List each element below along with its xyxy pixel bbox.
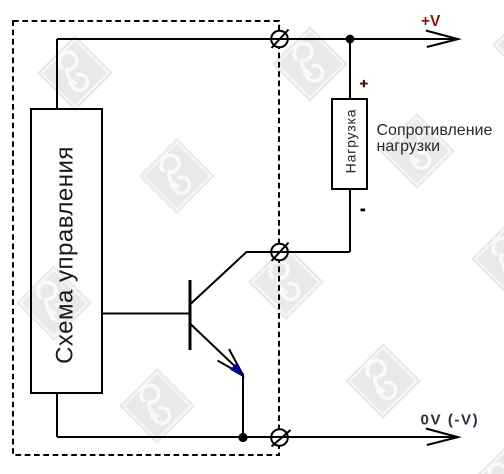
terminal X3 (bottom, 0V crossing) xyxy=(271,429,290,446)
svg-text:0V (-V): 0V (-V) xyxy=(421,412,480,429)
wire: base wire from control block to Q1 xyxy=(102,313,190,315)
polarity mark + xyxy=(360,80,368,87)
junction node (+V rail / load) xyxy=(346,35,355,44)
control circuit boundary (dashed) xyxy=(13,21,279,455)
resistor R1 load "Нагрузка" xyxy=(332,99,367,189)
arrow: 0V rail arrowhead xyxy=(426,429,458,446)
arrow: +V rail arrowhead xyxy=(426,31,458,48)
svg-text:Нагрузка: Нагрузка xyxy=(343,109,359,174)
wire: +V top rail xyxy=(57,38,457,40)
label Сопротивление нагрузки xyxy=(377,122,493,155)
wire: vertical from +V rail down to load top xyxy=(349,39,351,99)
svg-text:+V: +V xyxy=(421,13,441,30)
transistor Q1 (NPN) xyxy=(190,252,247,377)
svg-text:нагрузки: нагрузки xyxy=(377,138,441,155)
svg-text:Сопротивление: Сопротивление xyxy=(377,122,493,139)
wire: vertical from collector node up to load bottom xyxy=(349,189,351,252)
polarity mark - xyxy=(361,209,366,212)
svg-text:Схема управления: Схема управления xyxy=(52,146,79,364)
control block "Схема управления" xyxy=(31,109,102,393)
terminal X1 (top, +V crossing) xyxy=(271,30,288,49)
wire: emitter vertical down to 0V rail xyxy=(242,374,244,437)
wire: 0V bottom rail xyxy=(57,436,457,438)
wire: collector to terminal X2 and load xyxy=(246,251,350,253)
terminal X2 (middle, collector crossing) xyxy=(271,243,288,262)
wire: vertical from control block bottom to 0V rail xyxy=(56,393,58,437)
junction node (emitter / 0V rail) xyxy=(238,433,247,442)
wire: vertical from top rail to control block xyxy=(56,39,58,110)
